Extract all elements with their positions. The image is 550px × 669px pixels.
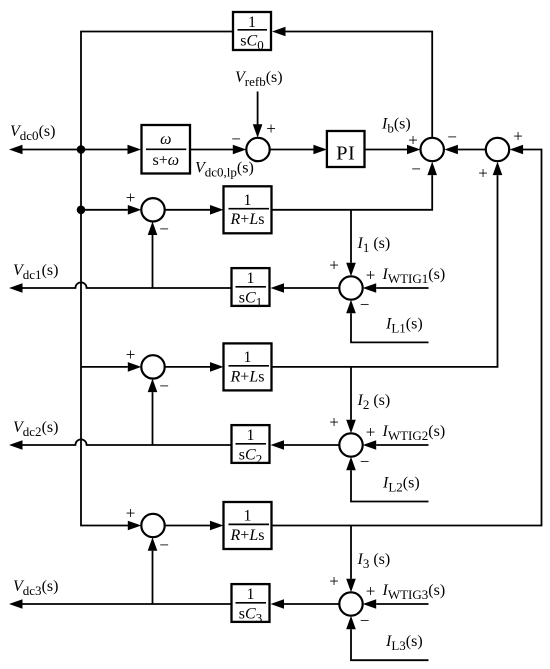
controller block PI — [327, 131, 365, 167]
svg-text:1: 1 — [247, 427, 255, 444]
svg-text:Vdc0(s): Vdc0(s) — [10, 123, 55, 143]
svg-text:R+Ls: R+Ls — [230, 368, 265, 385]
wire: Vdc2 line with hop over bus and left arrow — [9, 439, 232, 449]
op point: right summing junction row2 — [339, 433, 362, 456]
wire: Vdc3 line left arrow — [9, 599, 232, 609]
svg-text:Vdc3(s): Vdc3(s) — [13, 578, 58, 598]
svg-text:+: + — [329, 572, 339, 591]
wire: Vdc2 feedback up into left adder2 — [148, 379, 158, 445]
op point: right summing junction row1 — [339, 276, 362, 299]
wire: 1/(R+Ls) row3 output right, up the right bus, into A2 right input — [272, 145, 542, 526]
wire: I1 branch down into right adder row1 — [346, 210, 356, 276]
plant block 1/(R+Ls) row2 — [224, 343, 272, 390]
capacitor block 1/sC2 — [232, 425, 270, 466]
svg-text:R+Ls: R+Ls — [230, 527, 265, 544]
svg-text:+: + — [366, 582, 376, 601]
svg-text:R+Ls: R+Ls — [230, 211, 265, 228]
wire: right adder1 output into 1/sC1 — [271, 283, 340, 293]
wire: I2 branch down into right adder row2 — [346, 367, 356, 433]
wire: 1/(R+Ls) row2 output right and up into A2 — [272, 162, 503, 367]
wire: IL1 up into right adder1 — [346, 300, 428, 343]
svg-text:−: − — [360, 452, 370, 471]
wire: right adder2 output into 1/sC2 — [271, 440, 340, 450]
svg-text:ω: ω — [160, 131, 171, 148]
op point: right summing junction row3 — [339, 592, 362, 615]
wire: 1/(R+Ls) row1 output right and up into A1 — [272, 162, 438, 210]
svg-text:I3 (s): I3 (s) — [357, 551, 391, 571]
wire: Vdc0 into low-pass block — [81, 145, 141, 155]
wire: I3 branch down into right adder row3 — [346, 526, 356, 593]
wire: IL2 up into right adder2 — [346, 457, 428, 502]
svg-text:IL2(s): IL2(s) — [382, 475, 420, 495]
wire: A1 output up and left into 1/sC0 — [272, 27, 432, 138]
svg-text:+: + — [366, 266, 376, 285]
svg-text:+: + — [366, 423, 376, 442]
node: junction dot on row1 branch — [77, 206, 86, 215]
capacitor block 1/sC0 — [233, 12, 271, 53]
svg-text:PI: PI — [336, 143, 355, 165]
svg-text:s+ω: s+ω — [153, 152, 180, 169]
wire: IL3 up into right adder3 — [346, 616, 428, 661]
svg-text:−: − — [360, 295, 370, 314]
svg-text:+: + — [126, 504, 136, 523]
plant block 1/(R+Ls) row1 — [224, 186, 272, 233]
svg-text:+: + — [513, 127, 523, 146]
svg-text:+: + — [329, 413, 339, 432]
plant block 1/(R+Ls) row3 — [224, 502, 272, 549]
capacitor block 1/sC1 — [232, 268, 270, 309]
svg-text:−: − — [411, 160, 421, 179]
svg-text:IWTIG1(s): IWTIG1(s) — [382, 266, 446, 286]
svg-text:IL3(s): IL3(s) — [385, 633, 423, 653]
svg-text:IL1(s): IL1(s) — [385, 315, 423, 335]
svg-text:+: + — [408, 131, 418, 150]
svg-text:−: − — [447, 128, 457, 147]
svg-text:+: + — [266, 119, 276, 138]
wire: left adder2 output into 1/(R+Ls) row2 — [165, 362, 224, 372]
svg-text:Vdc2(s): Vdc2(s) — [13, 419, 58, 439]
wire: A2 output into A1 — [444, 145, 485, 155]
svg-text:+: + — [126, 188, 136, 207]
svg-text:1: 1 — [247, 586, 255, 603]
wire: Vdc1 line with hop over bus and left arrow — [9, 282, 232, 292]
svg-text:IWTIG3(s): IWTIG3(s) — [382, 582, 446, 602]
svg-text:+: + — [126, 345, 136, 364]
svg-text:Vrefb(s): Vrefb(s) — [235, 69, 283, 89]
capacitor block 1/sC3 — [232, 584, 270, 625]
svg-text:1: 1 — [248, 14, 256, 31]
wire: bus branch into left adder row1 — [81, 205, 141, 215]
svg-text:−: − — [231, 130, 241, 149]
svg-text:Ib(s): Ib(s) — [381, 116, 411, 136]
filter block w/(s+w) — [142, 125, 191, 174]
wire: bus branch into left adder row2 — [81, 362, 141, 372]
wire: IWTIG3 into right adder3 — [363, 599, 429, 609]
svg-text:I1 (s): I1 (s) — [357, 235, 391, 255]
svg-text:−: − — [159, 535, 169, 554]
op point: left summing junction row3 — [141, 514, 164, 537]
wire: left adder1 output into 1/(R+Ls) row1 — [165, 205, 224, 215]
wire: Vrefb down into error adder — [253, 92, 263, 138]
wire: 1/sC0 output left then down the left bus into left adder 3 — [81, 32, 233, 531]
wire: low-pass output into error adder — [190, 145, 246, 155]
svg-text:+: + — [478, 164, 488, 183]
wire: PI output into adder A1 — [365, 145, 421, 155]
svg-text:−: − — [360, 611, 370, 630]
wire: IWTIG2 into right adder2 — [363, 440, 429, 450]
svg-text:Vdc1(s): Vdc1(s) — [13, 262, 58, 282]
wire: Vdc0 output arrow to the left — [9, 145, 81, 155]
wire: IWTIG1 into right adder1 — [363, 283, 429, 293]
wire: left adder3 output into 1/(R+Ls) row3 — [165, 521, 224, 531]
wire: right adder3 output into 1/sC3 — [271, 599, 340, 609]
svg-text:−: − — [159, 220, 169, 239]
svg-text:I2 (s): I2 (s) — [357, 392, 391, 412]
wire: Vdc3 feedback up into left adder3 — [148, 537, 158, 604]
svg-text:1: 1 — [244, 349, 252, 366]
wire: error adder output into PI — [270, 145, 327, 155]
op point: summing junction A2 — [486, 138, 509, 161]
svg-text:IWTIG2(s): IWTIG2(s) — [382, 423, 446, 443]
svg-text:+: + — [329, 256, 339, 275]
node: junction dot on Vdc0 line — [77, 145, 86, 154]
wire: Vdc1 feedback up into left adder1 — [148, 222, 158, 289]
op point: error summing junction — [246, 138, 269, 161]
op point: left summing junction row1 — [141, 198, 164, 221]
svg-text:1: 1 — [247, 270, 255, 287]
svg-text:1: 1 — [244, 508, 252, 525]
svg-text:Vdc0,lp(s): Vdc0,lp(s) — [195, 160, 254, 180]
op point: left summing junction row2 — [141, 355, 164, 378]
op point: summing junction A1 — [421, 138, 444, 161]
svg-text:−: − — [159, 377, 169, 396]
svg-text:1: 1 — [244, 192, 252, 209]
